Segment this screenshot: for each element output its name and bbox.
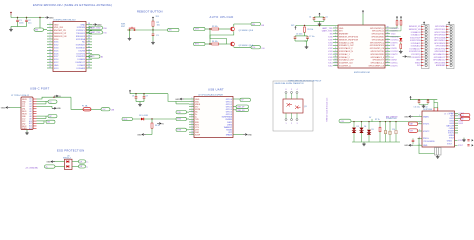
svg-text:C8: C8 [132, 95, 134, 97]
svg-text:GPIO1/TXD0: GPIO1/TXD0 [434, 32, 445, 34]
svg-text:14: 14 [191, 131, 193, 133]
svg-text:IO34/ADC6: IO34/ADC6 [411, 31, 421, 34]
svg-text:IO12/HSPI_Q: IO12/HSPI_Q [339, 66, 351, 68]
svg-text:14: 14 [335, 64, 337, 66]
svg-text:C7 10u: C7 10u [309, 36, 315, 38]
svg-text:13: 13 [191, 128, 193, 130]
svg-text:11: 11 [49, 52, 51, 54]
svg-text:D4: D4 [364, 126, 366, 128]
svg-text:15: 15 [191, 133, 193, 135]
svg-text:GPIO23/SDI: GPIO23/SDI [435, 26, 446, 28]
svg-text:34: 34 [88, 35, 90, 37]
svg-text:29: 29 [88, 49, 90, 51]
svg-text:10k: 10k [157, 24, 160, 26]
svg-text:26: 26 [387, 62, 389, 64]
svg-text:4: 4 [192, 105, 193, 107]
svg-text:ESP32-WROOM-32U (SAME AS EXTER: ESP32-WROOM-32U (SAME AS EXTERNAL ANTENN… [33, 3, 112, 7]
svg-text:DTR: DTR [177, 130, 182, 132]
svg-text:GPIO16/RX2: GPIO16/RX2 [434, 51, 445, 53]
svg-text:IO2/SCL: IO2/SCL [391, 63, 398, 65]
svg-text:U2 CP2102N-A02-GQFN28: U2 CP2102N-A02-GQFN28 [198, 93, 224, 96]
svg-text:GPIO19/SDO: GPIO19/SDO [434, 40, 446, 42]
svg-text:GPIO18/SCK: GPIO18/SCK [434, 43, 446, 45]
svg-text:GPIO16/U2RXD: GPIO16/U2RXD [370, 54, 384, 56]
svg-text:IO13/SPID: IO13/SPID [411, 57, 421, 59]
svg-text:30: 30 [387, 50, 389, 52]
svg-text:IO22/SCL: IO22/SCL [76, 30, 86, 32]
svg-text:26: 26 [88, 58, 90, 60]
svg-text:11: 11 [191, 123, 193, 125]
svg-text:GND: GND [404, 116, 409, 118]
svg-text:4: 4 [335, 35, 336, 37]
svg-text:25: 25 [88, 61, 90, 63]
svg-text:1: 1 [192, 98, 193, 100]
svg-text:3V3: 3V3 [156, 16, 159, 18]
svg-text:PROG/GNDD: PROG/GNDD [424, 141, 436, 143]
svg-text:R3 10k: R3 10k [212, 26, 218, 28]
svg-text:1: 1 [285, 123, 286, 125]
svg-text:GND: GND [54, 24, 59, 26]
svg-text:IO19/TX: IO19/TX [391, 42, 399, 44]
svg-text:DTR: DTR [195, 29, 200, 31]
svg-text:GPIO4/ADC10: GPIO4/ADC10 [433, 53, 445, 56]
svg-text:SENSOR_VP/GPIO36: SENSOR_VP/GPIO36 [339, 37, 358, 39]
svg-text:10: 10 [49, 49, 51, 51]
svg-text:27: 27 [387, 59, 389, 61]
svg-text:IO23/SDI: IO23/SDI [77, 27, 86, 29]
svg-text:28: 28 [88, 52, 90, 54]
svg-text:IO25/DAC1: IO25/DAC1 [411, 42, 421, 45]
svg-text:GND: GND [46, 162, 51, 164]
svg-text:EN/RESET: EN/RESET [436, 65, 446, 67]
svg-text:1: 1 [335, 27, 336, 29]
svg-text:25: 25 [387, 64, 389, 66]
svg-text:13: 13 [49, 58, 51, 60]
svg-text:GPIO1/U0TXD: GPIO1/U0TXD [371, 34, 384, 36]
svg-text:33: 33 [88, 38, 90, 40]
svg-text:13: 13 [335, 62, 337, 64]
svg-text:GND: GND [339, 28, 344, 30]
svg-text:C4: C4 [309, 16, 311, 18]
svg-text:VIN5V: VIN5V [415, 62, 421, 64]
svg-text:ESP32-WROOM: ESP32-WROOM [354, 72, 370, 74]
svg-text:IO25: IO25 [90, 56, 94, 58]
svg-text:IO2/A12: IO2/A12 [78, 64, 86, 67]
svg-text:GPIO22/SCL1: GPIO22/SCL1 [372, 31, 384, 33]
svg-text:GPIO21/SDA: GPIO21/SDA [434, 36, 446, 39]
svg-text:IO19/SDO: IO19/SDO [76, 45, 86, 47]
svg-text:8: 8 [50, 44, 51, 46]
svg-text:GPIO2/ADC12: GPIO2/ADC12 [433, 59, 445, 62]
svg-text:32: 32 [88, 41, 90, 43]
svg-text:EN/RESET: EN/RESET [339, 34, 349, 36]
svg-text:ESP32-WROOM-32U MODULE PINOUT: ESP32-WROOM-32U MODULE PINOUT [289, 81, 323, 83]
svg-text:GND: GND [416, 60, 421, 62]
svg-text:Q3: Q3 [304, 106, 307, 108]
svg-text:IO17/TX2: IO17/TX2 [76, 53, 85, 55]
svg-text:GND: GND [56, 108, 61, 110]
svg-text:IO17/SCL: IO17/SCL [391, 51, 399, 53]
svg-text:GPIO4/ADC2_0: GPIO4/ADC2_0 [371, 56, 384, 59]
svg-text:4: 4 [296, 89, 297, 91]
svg-text:37: 37 [387, 30, 389, 32]
svg-text:VBAT5: VBAT5 [423, 115, 429, 118]
svg-text:GPIO15/SS1: GPIO15/SS1 [434, 62, 445, 64]
svg-text:GPIO3/RXD0: GPIO3/RXD0 [434, 35, 445, 37]
svg-text:SENSOR_VN: SENSOR_VN [409, 29, 421, 31]
svg-text:UART_TXD: UART_TXD [90, 31, 101, 34]
svg-text:GPIO17/TX2: GPIO17/TX2 [435, 48, 446, 50]
svg-text:9: 9 [335, 50, 336, 52]
svg-text:GND: GND [1, 107, 6, 109]
svg-text:1: 1 [419, 115, 420, 117]
svg-text:2: 2 [50, 26, 51, 28]
svg-text:6: 6 [192, 110, 193, 112]
svg-text:L1: L1 [462, 115, 464, 117]
svg-text:GNDD: GNDD [447, 141, 453, 143]
svg-text:U4 IP5306: U4 IP5306 [423, 109, 432, 111]
svg-text:6: 6 [50, 38, 51, 40]
svg-text:+5V_USB(USB): +5V_USB(USB) [25, 167, 38, 169]
svg-text:Q2 S8050 / Q3-A: Q2 S8050 / Q3-A [239, 44, 254, 47]
svg-text:8: 8 [192, 116, 193, 118]
svg-text:38: 38 [88, 23, 90, 25]
svg-text:GND: GND [247, 134, 252, 136]
svg-text:IO0/RX: IO0/RX [391, 60, 398, 62]
svg-text:SUSP: SUSP [195, 135, 201, 137]
svg-text:IO27/ADC17: IO27/ADC17 [410, 47, 421, 50]
svg-text:7: 7 [50, 41, 51, 43]
svg-text:C11 10u: C11 10u [414, 107, 420, 109]
svg-text:GND: GND [423, 145, 428, 147]
svg-text:GPIO5/VSPI_CS: GPIO5/VSPI_CS [370, 48, 385, 50]
svg-text:IO35/ADC1_CH7: IO35/ADC1_CH7 [339, 44, 354, 47]
svg-text:15: 15 [49, 64, 51, 66]
svg-text:IO15/A13: IO15/A13 [77, 67, 86, 70]
svg-text:IO0/BOOT: IO0/BOOT [76, 62, 86, 64]
svg-text:29: 29 [387, 53, 389, 55]
svg-text:3: 3 [296, 123, 297, 125]
svg-text:SENSOR_VN: SENSOR_VN [54, 36, 67, 38]
svg-text:IO16/RX2: IO16/RX2 [76, 56, 86, 58]
svg-text:IO18: IO18 [391, 45, 395, 47]
svg-text:AUTO UPLOAD: AUTO UPLOAD [210, 15, 234, 19]
svg-text:IO21/SDA: IO21/SDA [76, 38, 86, 41]
svg-text:C9: C9 [146, 95, 148, 97]
svg-text:GND: GND [175, 99, 180, 101]
svg-text:IO35/ADC7: IO35/ADC7 [411, 34, 421, 37]
svg-text:35: 35 [387, 35, 389, 37]
svg-text:7: 7 [335, 44, 336, 46]
svg-text:GPIO15/HSPI_CS: GPIO15/HSPI_CS [369, 66, 385, 68]
svg-text:IO5/RX: IO5/RX [391, 48, 398, 50]
svg-text:IO21/SCL: IO21/SCL [391, 39, 399, 41]
svg-text:6: 6 [335, 41, 336, 43]
svg-text:5: 5 [50, 35, 51, 37]
svg-text:2: 2 [335, 30, 336, 32]
svg-text:IO14/HSPI_CLK: IO14/HSPI_CLK [339, 63, 354, 65]
svg-text:R4 10k: R4 10k [212, 41, 218, 43]
svg-text:5: 5 [335, 38, 336, 40]
svg-text:GPIO3/U0RXD: GPIO3/U0RXD [371, 37, 384, 39]
svg-text:IO32/XTAL32_P: IO32/XTAL32_P [339, 47, 353, 50]
svg-text:GPIO18/VSPICK: GPIO18/VSPICK [370, 45, 385, 47]
svg-text:8: 8 [335, 47, 336, 49]
svg-text:10: 10 [335, 53, 337, 55]
svg-text:SENSOR_VP: SENSOR_VP [409, 26, 421, 28]
svg-text:R7 1k: R7 1k [375, 119, 380, 121]
svg-text:GND: GND [137, 134, 142, 136]
svg-text:IO4: IO4 [391, 57, 394, 59]
svg-text:IO12/SPIQ: IO12/SPIQ [411, 54, 421, 56]
svg-text:14: 14 [49, 61, 51, 63]
svg-text:9: 9 [50, 46, 51, 48]
svg-text:D2 LL4148: D2 LL4148 [139, 115, 148, 117]
svg-text:GPIO17/U2TXD: GPIO17/U2TXD [370, 51, 384, 53]
svg-text:9: 9 [192, 118, 193, 120]
svg-text:IO15/TX: IO15/TX [391, 66, 399, 68]
svg-text:RXD0/IO3: RXD0/IO3 [76, 36, 86, 38]
svg-text:GPIO23/VSPI_D: GPIO23/VSPI_D [370, 28, 385, 30]
svg-text:SENSOR_VP: SENSOR_VP [54, 33, 67, 35]
svg-text:Q1 S8050 / Q3-B: Q1 S8050 / Q3-B [239, 30, 254, 32]
svg-text:USB-C PORT: USB-C PORT [30, 86, 50, 90]
svg-text:D5: D5 [372, 129, 374, 131]
svg-text:USB_DN: USB_DN [237, 110, 245, 112]
svg-text:2: 2 [192, 100, 193, 102]
svg-text:VDD_3V3: VDD_3V3 [54, 27, 64, 29]
svg-text:36: 36 [387, 33, 389, 35]
svg-text:L2: L2 [462, 119, 464, 121]
svg-text:6: 6 [285, 89, 286, 91]
svg-text:3: 3 [335, 33, 336, 35]
svg-text:34: 34 [387, 38, 389, 40]
svg-text:IO33/XT32N: IO33/XT32N [410, 40, 421, 42]
svg-text:RXD: RXD [123, 119, 128, 121]
svg-text:3V3: 3V3 [339, 31, 342, 33]
svg-text:IO34/ADC1_CH6: IO34/ADC1_CH6 [339, 41, 354, 44]
svg-text:RTS: RTS [195, 44, 200, 46]
svg-text:TXD0: TXD0 [391, 34, 396, 36]
svg-text:IO14/SPICLK: IO14/SPICLK [409, 51, 421, 53]
svg-text:REBOOT BUTTON: REBOOT BUTTON [137, 10, 163, 14]
svg-text:TX0: TX0 [103, 33, 106, 35]
svg-text:SPARE: SPARE [226, 134, 233, 137]
svg-text:12: 12 [191, 126, 193, 128]
svg-text:10: 10 [191, 121, 193, 123]
svg-text:GPIO0/BOOT: GPIO0/BOOT [372, 60, 385, 62]
svg-text:U1 ESP32-WROOM-32U: U1 ESP32-WROOM-32U [53, 19, 76, 21]
svg-text:IO27/ADC2_CH7: IO27/ADC2_CH7 [339, 59, 354, 62]
svg-text:IO33/XTAL32_N: IO33/XTAL32_N [339, 50, 353, 53]
svg-text:30: 30 [88, 46, 90, 48]
svg-text:C6 100n: C6 100n [296, 34, 302, 36]
svg-text:F1 2A: F1 2A [82, 105, 88, 108]
svg-text:LED3: LED3 [459, 123, 464, 125]
svg-text:10u: 10u [28, 23, 31, 25]
svg-text:C5: C5 [326, 16, 328, 18]
svg-text:D+: D+ [86, 162, 88, 164]
svg-text:32: 32 [387, 44, 389, 46]
svg-text:ESD PROTECTION: ESD PROTECTION [57, 148, 84, 152]
svg-text:GPIO22/SCL: GPIO22/SCL [434, 29, 445, 31]
svg-text:2: 2 [419, 123, 420, 125]
svg-text:GPIO0/BOOT: GPIO0/BOOT [434, 57, 447, 59]
svg-text:VOUT2: VOUT2 [423, 131, 429, 133]
svg-text:EN/CHIP_PU: EN/CHIP_PU [54, 30, 67, 32]
svg-text:RX0: RX0 [103, 28, 107, 30]
svg-text:GND: GND [54, 65, 59, 67]
svg-text:C12: C12 [425, 107, 428, 109]
svg-text:IO26/DAC_2: IO26/DAC_2 [339, 56, 350, 59]
svg-text:GND: GND [81, 24, 86, 26]
svg-text:11: 11 [335, 56, 337, 58]
svg-text:PROG: PROG [423, 138, 429, 140]
svg-text:33: 33 [387, 41, 389, 43]
svg-text:3: 3 [50, 29, 51, 31]
svg-text:GPIO2/ADC2_2: GPIO2/ADC2_2 [371, 62, 384, 65]
svg-text:IO32/XT32P: IO32/XT32P [410, 37, 421, 39]
svg-text:23: 23 [88, 67, 90, 69]
svg-text:USB UART: USB UART [208, 87, 224, 91]
svg-text:IO5/SS: IO5/SS [79, 50, 86, 52]
svg-text:IO0: IO0 [262, 48, 265, 50]
svg-text:12: 12 [335, 59, 337, 61]
svg-text:3: 3 [419, 130, 420, 132]
svg-text:C10: C10 [392, 129, 395, 131]
svg-text:VOUT1: VOUT1 [423, 124, 429, 126]
svg-text:24: 24 [88, 64, 90, 66]
svg-text:R5 10k: R5 10k [308, 29, 314, 31]
svg-text:5: 5 [192, 108, 193, 110]
svg-text:3V3: 3V3 [291, 25, 294, 27]
svg-text:WAKEUP: WAKEUP [224, 126, 233, 129]
svg-text:GPIO5/SS0: GPIO5/SS0 [436, 46, 446, 48]
svg-text:IO18/SCK: IO18/SCK [76, 48, 86, 50]
svg-text:IO26/DAC2: IO26/DAC2 [411, 45, 421, 48]
svg-text:1: 1 [50, 23, 51, 25]
svg-text:31: 31 [88, 44, 90, 46]
svg-text:UART_TXD: UART_TXD [322, 27, 333, 30]
svg-text:R6 1k: R6 1k [155, 125, 160, 127]
svg-text:38: 38 [387, 27, 389, 29]
svg-text:3V3: 3V3 [417, 65, 420, 67]
svg-text:UART_RXD: UART_RXD [90, 27, 101, 30]
svg-text:3: 3 [192, 103, 193, 105]
svg-text:BAT CHARGE: BAT CHARGE [386, 115, 398, 118]
svg-text:IO16/TX: IO16/TX [391, 54, 399, 56]
svg-text:GPIO19/VSPI_Q: GPIO19/VSPI_Q [370, 42, 385, 44]
svg-text:SHELL: SHELL [22, 128, 27, 130]
svg-text:GND: GND [404, 145, 409, 147]
svg-text:4: 4 [50, 32, 51, 34]
svg-text:D3: D3 [357, 126, 359, 128]
svg-text:GPIO21/SDA1: GPIO21/SDA1 [372, 38, 384, 41]
svg-text:TXD: TXD [177, 112, 181, 114]
svg-text:IO0: IO0 [252, 47, 255, 49]
svg-text:A0: A0 [101, 56, 103, 59]
svg-text:12: 12 [49, 55, 51, 57]
svg-text:IO25/DAC_1: IO25/DAC_1 [339, 53, 350, 56]
svg-text:USB 5V (male & female var): USB 5V (male & female var) [326, 97, 329, 121]
svg-text:31: 31 [387, 47, 389, 49]
svg-text:16: 16 [49, 67, 51, 69]
svg-text:2: 2 [291, 123, 292, 125]
svg-text:IO4/A10: IO4/A10 [78, 58, 86, 61]
svg-text:SENSOR_VN/GPIO39: SENSOR_VN/GPIO39 [339, 39, 358, 41]
svg-text:TXD0/IO1: TXD0/IO1 [76, 33, 86, 35]
svg-text:5: 5 [291, 89, 292, 91]
svg-text:7: 7 [192, 113, 193, 115]
svg-text:28: 28 [387, 56, 389, 58]
svg-text:UART_RXD: UART_RXD [322, 30, 333, 33]
svg-text:5: 5 [419, 144, 420, 146]
svg-text:100n: 100n [19, 23, 23, 25]
